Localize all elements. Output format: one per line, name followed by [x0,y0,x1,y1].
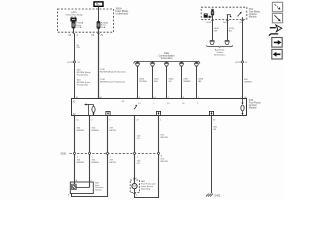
X206 junction on wire 705 [89,152,93,158]
svg-text:14: 14 [167,103,169,105]
nav icon open diagram [272,2,282,11]
svg-text:O/Gen Run Relay: O/Gen Run Relay [65,15,83,17]
svg-text:BU: BU [229,31,232,33]
wire B+ to fuse F21UA [98,7,100,22]
module internal pin refs below top edge [122,101,199,105]
fuel pressure sensor pin ticks [68,179,93,196]
nav icon jump arrow [269,25,282,36]
svg-text:16: 16 [182,103,184,105]
wire label 705 BU/WH upper [91,127,99,132]
serial data drop 2 label [154,78,160,83]
ring terminal 1 [210,40,215,44]
serial data drop 4 label [183,78,191,83]
svg-text:BU/WH: BU/WH [91,130,99,132]
fuel pressure sensor label [95,183,104,192]
svg-text:Schematics: Schematics [214,54,226,57]
pin numbers above module top edge [76,97,248,99]
wire circuit label 30 OR [76,45,80,49]
data communication schematics label [159,52,176,60]
svg-text:WH: WH [154,81,158,83]
svg-text:B+: B+ [96,2,100,6]
wire label 704 BN/WH lower [77,159,85,164]
relay KR75 symbol [71,16,77,21]
X206 junction on wire 737 [107,152,111,158]
module internal receptacle at pin 1 [156,111,160,115]
pin numbers inside module bottom edge [76,120,216,122]
svg-text:BN/WH: BN/WH [77,162,85,164]
svg-text:BK/GN: BK/GN [161,161,168,163]
fuse block X50A dashed outline [58,9,114,32]
serial data drop 4 [179,61,183,98]
module internal driver right [241,99,244,116]
serial data drop 5 [194,61,198,98]
svg-text:M: M [133,184,135,188]
svg-text:20 A: 20 A [101,26,106,29]
fuse F21UA [97,21,100,28]
wire module pin 47 to fuel pump motor [134,116,136,181]
svg-text:Sensor: Sensor [95,189,102,192]
relay (filled) inside T64 box [204,14,208,18]
svg-text:BK/YE: BK/YE [109,130,116,132]
svg-text:X206: X206 [60,153,66,156]
module K33 box [72,99,247,116]
svg-text:5: 5 [92,156,93,158]
svg-text:2: 2 [136,194,137,196]
fuel pump assembly label [141,180,156,191]
serial data drop 2 [150,61,154,98]
svg-text:PU/WH: PU/WH [139,81,147,83]
module internal driver left [84,104,95,116]
wire T64 fuse to ring terminal [212,19,214,40]
svg-text:(X125: (X125 [235,62,242,64]
wire label 1703 BU [229,28,235,33]
svg-text:WH/BK: WH/BK [183,81,191,83]
svg-text:BK/YE: BK/YE [109,162,116,164]
switch element inside T64 [237,12,242,20]
wire label 450 BK [213,126,217,130]
pin labels below T64 box [206,22,243,24]
X206 junction on wire 672 [158,152,163,157]
svg-text:RD/WH (Early Production): RD/WH (Early Production) [100,71,126,74]
wire label 737 BK/YE lower [109,159,116,164]
pin tick wire 2 at X50A edge [97,32,99,34]
svg-text:06: 06 [122,101,124,103]
top right dashed box T64 [201,7,247,19]
module internal arrow at pin 47 [134,105,137,110]
wire label 705 BU/WH lower [91,159,99,164]
wire module pin 45 to ground G402 [211,116,213,194]
wire label 120 GY upper [137,136,141,141]
label T64 module [249,8,261,19]
module internal receptacle at pin 45 [209,111,213,115]
fuel pump pin tick bars [133,178,135,193]
fuel pump pin marks [136,178,137,197]
serial data drop 3 [164,61,168,98]
brace to automatic choke schematics [207,45,233,47]
svg-text:Production): Production) [77,73,88,76]
svg-text:Module: Module [249,16,258,19]
automatic choke schematics label [214,49,226,57]
wire fuse F19UA to module pin 41 [73,28,75,33]
module internal receptacle at pin 3 [106,111,110,115]
data communication bracket [134,61,200,63]
svg-text:GY: GY [169,81,173,83]
wire label 340 RD/WH late production [77,79,91,86]
wire label 120 GY lower [137,160,141,165]
svg-text:BK/GN: BK/GN [161,137,168,139]
svg-text:X4 30: X4 30 [206,22,211,24]
fuse F19UA [72,22,75,28]
svg-text:Schematics: Schematics [161,57,174,60]
svg-text:G402: G402 [214,194,221,197]
serial data drop 3 label [169,78,175,83]
wire module pin 16 to fuel pressure sensor [74,116,76,185]
svg-text:RD/WH (Late Production): RD/WH (Late Production) [100,81,125,84]
fuel pump motor M [132,180,137,192]
svg-text:BU/WH: BU/WH [91,162,99,164]
svg-text:3: 3 [110,156,111,158]
svg-text:4: 4 [77,156,78,158]
svg-text:GN/WH: GN/WH [244,82,252,84]
wire module pin 4 to fuel pressure sensor [89,116,91,188]
relay KR75 label [65,12,83,17]
pin ticks on T64 bottom edge wires [211,20,243,22]
wire label 465 GN/WH [244,79,252,84]
inline connector X125 pin 21 [67,61,80,64]
svg-text:7.5 A: 7.5 A [76,26,82,29]
serial data drop 1 label [139,78,147,83]
svg-text:OR: OR [214,31,218,33]
wire label 704 BN/WH upper [77,127,85,132]
wire module pin 3 to fuel pressure sensor low [72,116,108,197]
svg-text:14: 14 [138,103,140,105]
wire label 1740 BN/WH early production [100,69,126,74]
svg-text:1: 1 [197,103,198,105]
X206 junction on wire 704 [74,152,78,158]
fuse F19UA value label [76,22,83,30]
wire T64 contact to ring terminal [227,19,229,40]
nav icon forward [272,38,282,48]
wire module pin 1 to fuel pump return [135,116,159,198]
inline connector X206 dashed line [70,153,159,155]
X206 junction on wire 120 [134,152,138,158]
svg-text:6: 6 [137,156,138,158]
svg-text:OR: OR [76,47,80,49]
relay contact element inside T64 [227,15,232,20]
wire label 1400 OR [214,28,220,33]
svg-text:7: 7 [153,103,154,105]
svg-text:Production): Production) [77,83,88,86]
svg-text:BN: BN [198,81,201,83]
svg-text:GY: GY [137,163,141,165]
wire label 340 RD/WH early production [77,69,92,76]
svg-text:Underhood: Underhood [116,12,129,15]
svg-text:GY: GY [137,138,141,140]
svg-text:Assembly: Assembly [141,188,151,191]
fuse F21UA value label [101,21,108,29]
serial data drop 5 label [198,78,204,83]
inline connector X125 pin 20 [235,61,248,64]
wire fuse F21UA to module pin 34 [98,28,100,98]
svg-text:(X125: (X125 [67,62,74,64]
fuel pump motor dashed box [130,180,139,192]
ring terminal 2 [225,40,230,44]
svg-text:1: 1 [136,178,137,180]
fuel pressure sensor B47 box [70,182,93,194]
wire T64 switch to module pin 40 [242,19,244,98]
serial data drop 1 [135,61,139,98]
svg-text:Module: Module [249,107,258,110]
pin X3 2 [68,35,78,37]
label X50A Fuse Block - Underhood [116,7,130,15]
svg-text:BN/WH: BN/WH [77,130,85,132]
wire label 1740 BN/WH late production [100,79,125,84]
ground G402 [206,194,221,198]
nav icon back [272,49,282,59]
arrow relay to fuse wire [208,16,212,18]
module label K33 fuel pump control module [249,99,261,110]
B+ power feed box [94,2,103,6]
nav icon open diagram 2 [272,13,282,22]
wire label 737 BK/YE upper [109,127,116,132]
wire label 672 BK/GN upper [161,134,168,139]
fuse inside T64 box [211,9,214,19]
pin X2 79 [91,35,103,37]
wire label 672 BK/GN lower [161,159,168,164]
